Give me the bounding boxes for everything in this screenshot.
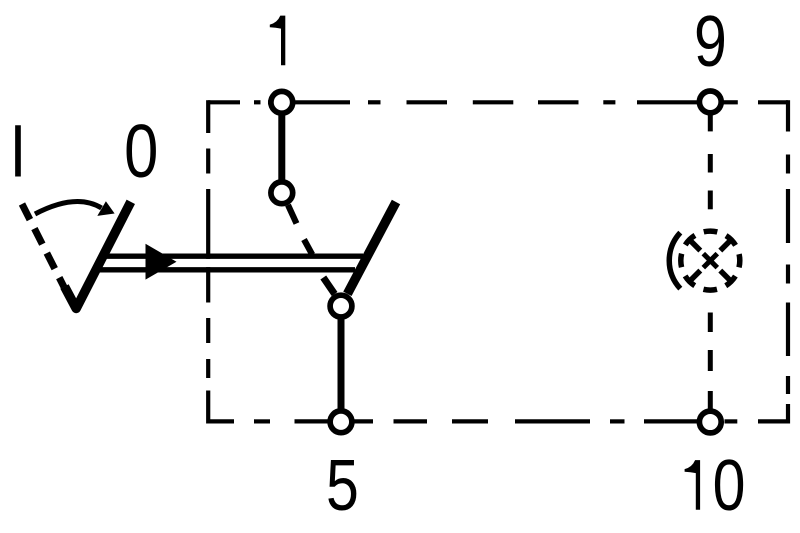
lever solid (position 0) left half xyxy=(65,202,131,309)
actuator arrowhead xyxy=(146,244,177,280)
wire from terminal 1 to contact xyxy=(278,112,285,184)
dashed wire terminal 9 to lamp xyxy=(708,113,713,209)
terminal 5 circle xyxy=(330,411,352,433)
switch body dash-dot border bottom edge xyxy=(208,419,788,423)
svg-text:0: 0 xyxy=(124,109,158,193)
actuation direction arc arrow xyxy=(35,202,102,214)
arc arrowhead xyxy=(97,201,114,216)
rod white interior xyxy=(94,259,370,267)
svg-text:0: 0 xyxy=(713,444,746,525)
dashed wire lamp to terminal 10 xyxy=(708,313,713,410)
lever position I dashed xyxy=(22,204,64,287)
svg-text:9: 9 xyxy=(694,0,727,81)
terminal 9 circle xyxy=(699,91,721,113)
moving contact dashed link, segment 2 xyxy=(304,240,312,255)
lamp cross stroke 2 xyxy=(703,254,717,268)
actuator rod upper line xyxy=(100,254,363,259)
switch body dash-dot border left edge xyxy=(206,100,210,423)
lamp cross stroke 1 xyxy=(703,254,717,268)
switch body dash-dot border right edge xyxy=(786,100,790,423)
lamp ray SE xyxy=(720,271,730,281)
moving contact dashed link, segment 3 xyxy=(323,278,334,295)
lamp ray NW xyxy=(691,241,701,251)
lamp ray NE xyxy=(720,241,730,251)
lamp ray SW xyxy=(691,271,701,281)
actuator rod lower line xyxy=(94,267,355,272)
pivot contact circle xyxy=(330,295,352,317)
lamp dashed circle xyxy=(681,231,740,290)
label terminal 1 xyxy=(270,16,286,66)
contact circle below terminal 1 xyxy=(271,182,293,204)
lamp reflector arc xyxy=(669,233,680,289)
label terminal 10, digit 1 xyxy=(685,460,701,510)
svg-text:I: I xyxy=(10,110,27,193)
wire from pivot to terminal 5 xyxy=(338,316,345,412)
moving contact dashed link, segment 1 xyxy=(288,205,297,224)
switch body dash-dot border top edge xyxy=(208,100,788,104)
svg-text:5: 5 xyxy=(326,444,359,525)
terminal 10 circle xyxy=(699,411,721,433)
terminal 1 circle xyxy=(271,91,293,113)
switch lever at pivot xyxy=(347,202,396,294)
